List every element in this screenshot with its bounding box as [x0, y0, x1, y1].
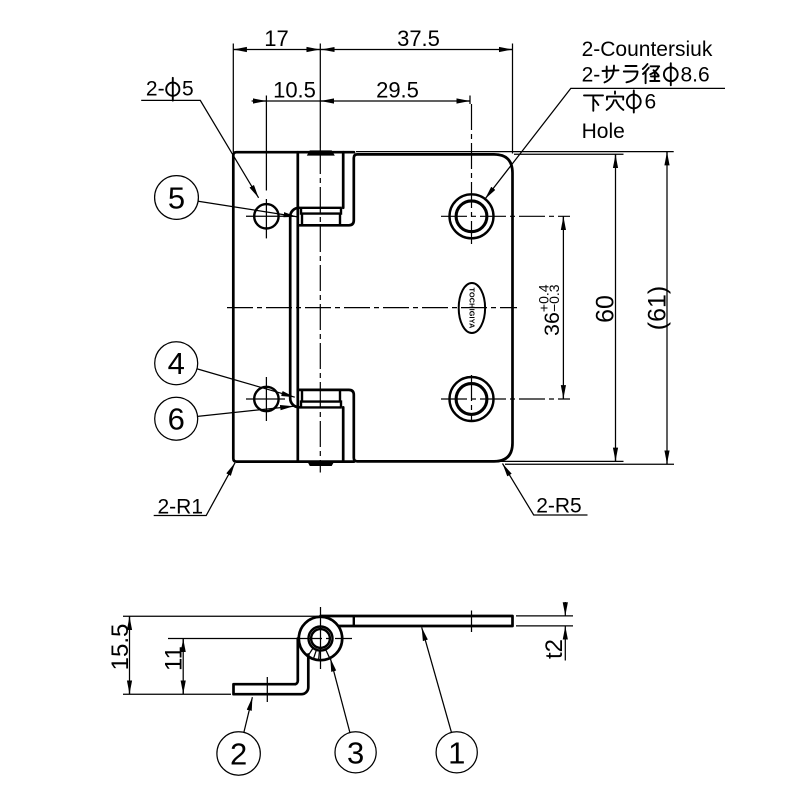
extension line x=266.4 upper: [265, 96, 267, 191]
svg-text:4: 4: [168, 346, 185, 381]
left plate bend outer edge: [290, 208, 299, 407]
curl end radial lines: [308, 648, 330, 660]
extension line x=233: [232, 44, 234, 153]
phi5 bottom horizontal centerline: [246, 398, 285, 400]
countersunk top horizontal centerline + 36 extension: [441, 215, 570, 217]
flat leaf bar: [321, 616, 513, 626]
maker logo ellipse: [459, 283, 485, 333]
dimension 11: [182, 639, 184, 695]
bottom washer step A: [301, 402, 341, 408]
svg-text:5: 5: [182, 77, 194, 100]
pin outer circle: [309, 627, 333, 651]
leader 2-R1: [154, 463, 235, 516]
svg-text:3: 3: [347, 735, 364, 770]
svg-text:29.5: 29.5: [376, 78, 419, 103]
hole centerline tick on bar: [471, 611, 473, 633]
svg-text:2: 2: [230, 737, 247, 772]
extension lines t2: [516, 615, 573, 617]
note line3 ShitaAna phi6: [584, 91, 623, 110]
svg-text:15.5: 15.5: [107, 624, 134, 671]
phi5 bottom vertical centerline: [265, 377, 267, 421]
hole phi5 bottom: [254, 387, 278, 411]
phi5 top horizontal centerline: [246, 215, 285, 217]
dimension (61) line: [666, 152, 668, 464]
svg-text:1: 1: [448, 735, 465, 770]
hinge pin black tab top: [307, 150, 335, 155]
svg-text:2-: 2-: [582, 64, 601, 87]
svg-text:11: 11: [161, 646, 188, 671]
leader 2-R5: [503, 464, 588, 516]
svg-text:60: 60: [592, 295, 620, 323]
balloon 5: [155, 176, 199, 220]
svg-text:Hole: Hole: [582, 120, 625, 143]
hole centerline tick on flange: [266, 677, 268, 702]
countersunk bottom horizontal centerline + 36 extension: [441, 398, 570, 400]
top knuckle bottom line: [299, 207, 342, 209]
balloon 3: [335, 732, 376, 773]
top washer step A: [301, 208, 341, 214]
countersunk hole top outer: [450, 194, 494, 238]
top washer step B: [302, 214, 340, 226]
main horizontal centerline: [227, 307, 517, 309]
left plate bend inner edge / knuckle left edge: [296, 152, 299, 461]
bottom knuckle top line: [299, 406, 342, 408]
curl outer arc: [299, 617, 342, 660]
dimension line 10.5 / 29.5: [252, 100, 470, 102]
dimension 60 line: [615, 154, 617, 461]
dimension line 17 / 37.5: [233, 49, 512, 51]
svg-text:37.5: 37.5: [397, 26, 440, 51]
bent leaf profile: [234, 639, 309, 695]
top knuckle right edge: [342, 152, 345, 208]
svg-text:t2: t2: [541, 639, 568, 659]
svg-text:6: 6: [645, 91, 657, 114]
dimension 15.5: [129, 616, 131, 694]
dimension 36 line: [562, 216, 564, 398]
pin horizontal centerline: [168, 638, 296, 640]
svg-text:2-R5: 2-R5: [536, 495, 582, 518]
svg-text:(61): (61): [644, 286, 672, 330]
balloon 2: [217, 732, 260, 775]
extension lines right top: [356, 151, 674, 153]
dimension t2: [564, 602, 566, 616]
balloon 1: [436, 732, 477, 773]
svg-text:5: 5: [168, 181, 185, 216]
svg-text:6: 6: [168, 402, 185, 437]
countersunk hole top inner: [456, 201, 487, 232]
svg-text:8.6: 8.6: [681, 64, 710, 87]
countersunk hole bottom inner: [456, 384, 487, 415]
svg-text:10.5: 10.5: [273, 78, 316, 103]
countersunk hole bottom outer: [450, 377, 494, 421]
countersunk hole top vertical centerline: [469, 96, 471, 105]
svg-text:2-Countersiuk: 2-Countersiuk: [582, 38, 713, 61]
hole phi5 top: [254, 204, 278, 228]
countersink note leader: [485, 88, 725, 199]
knuckle edge tick on bar: [353, 616, 355, 626]
hinge pin black tab bottom: [307, 461, 335, 467]
bottom washer step B: [302, 390, 340, 402]
pin inner circle: [311, 629, 330, 648]
bottom knuckle right edge: [342, 407, 345, 461]
pin vertical centerline: [320, 607, 322, 669]
left plate (mounting leaf) outline: [233, 152, 354, 461]
svg-text:17: 17: [264, 26, 288, 51]
svg-text:36+0.4−0.3: 36+0.4−0.3: [535, 284, 564, 336]
extension line top (15.5): [123, 615, 320, 617]
countersunk hole bottom vertical centerline: [471, 375, 473, 422]
extension line bottom (15.5/11): [123, 693, 231, 695]
leader 2-phi5: [141, 100, 258, 197]
right plate (flat leaf) outline with cutouts and R5 corners: [298, 154, 513, 461]
svg-text:2-: 2-: [146, 77, 165, 100]
extension line x=510: [512, 44, 514, 154]
hinge centerline vertical: [319, 44, 321, 149]
balloon 6: [155, 397, 198, 440]
extension lines right bottom: [500, 460, 624, 462]
balloon 4: [155, 342, 198, 385]
